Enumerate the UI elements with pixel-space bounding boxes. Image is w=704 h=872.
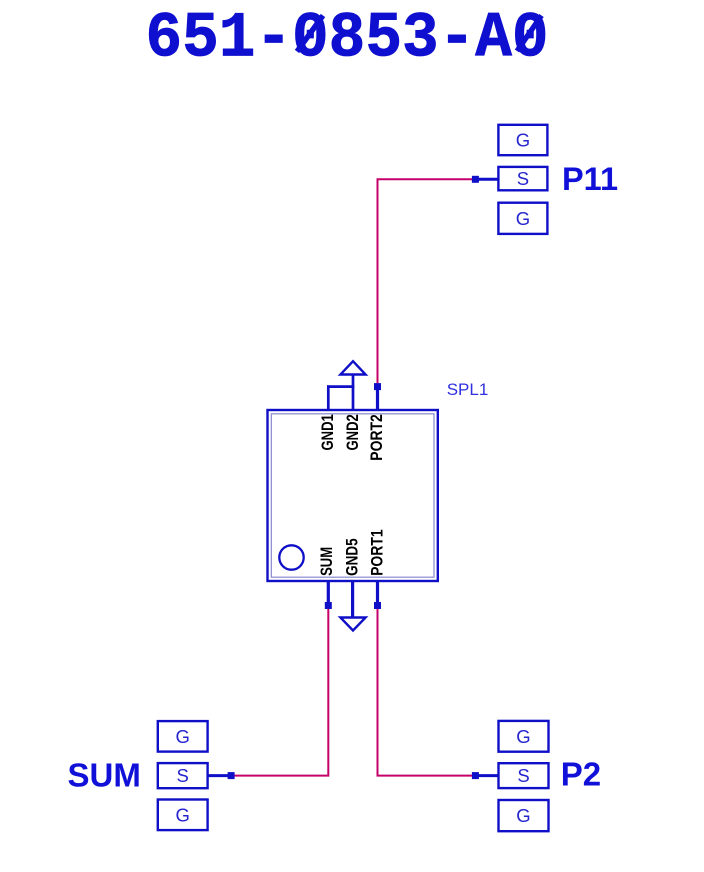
- junction square SUM: [228, 772, 235, 779]
- pin GND2 wire: [352, 374, 355, 412]
- svg-text:G: G: [516, 805, 530, 826]
- slashed-zero overlay (second 0): [517, 16, 542, 52]
- pad G (P11 top): [498, 125, 547, 155]
- pad G (P2 top): [499, 721, 549, 752]
- pad G (P11 bottom): [498, 203, 547, 234]
- svg-text:SPL1: SPL1: [447, 380, 489, 399]
- junction square PORT1: [374, 602, 381, 609]
- pad S (SUM): [158, 763, 208, 788]
- pin GND5 wire: [351, 580, 354, 618]
- svg-text:S: S: [517, 765, 529, 786]
- pin-1 indicator circle: [279, 545, 303, 569]
- svg-text:GND1: GND1: [318, 414, 337, 450]
- svg-text:P11: P11: [562, 161, 618, 197]
- svg-text:S: S: [177, 765, 189, 786]
- pin GND1 wire: [327, 385, 354, 411]
- power symbol arrow up: [340, 361, 365, 374]
- pad G (P2 bottom): [499, 800, 549, 831]
- pad G (SUM top): [158, 721, 208, 752]
- title 651-0853-A0: [146, 3, 549, 75]
- splitter U1 (SPL1) body: [268, 380, 489, 581]
- port P2 pad group (G/S/G): [472, 721, 601, 831]
- net N_P2 wire: [378, 606, 473, 776]
- wire stub S pad P2: [477, 774, 499, 777]
- svg-text:G: G: [176, 804, 190, 825]
- junction square P2: [472, 772, 479, 779]
- pin PORT1 stub: [376, 580, 379, 606]
- svg-text:SUM: SUM: [68, 756, 141, 793]
- net SUM wire: [234, 606, 328, 776]
- slashed-zero overlay (first 0): [297, 16, 323, 52]
- pin SUM stub: [327, 580, 330, 606]
- svg-text:P2: P2: [561, 756, 601, 793]
- svg-text:G: G: [516, 130, 530, 151]
- svg-text:G: G: [176, 726, 190, 747]
- svg-text:G: G: [516, 726, 530, 747]
- svg-text:PORT1: PORT1: [367, 529, 386, 576]
- port P11 pad group (G/S/G): [472, 125, 618, 234]
- svg-text:GND5: GND5: [342, 538, 361, 576]
- svg-text:SUM: SUM: [317, 547, 336, 576]
- svg-text:G: G: [516, 208, 530, 229]
- wire stub S pad P11: [477, 178, 498, 181]
- junction square PORT2: [374, 383, 381, 390]
- pad S (P2): [499, 763, 549, 788]
- pad S (P11): [498, 167, 547, 190]
- pin PORT2 stub: [376, 387, 379, 411]
- junction square SUM pin: [325, 602, 332, 609]
- pad G (SUM bottom): [158, 800, 208, 831]
- ground symbol arrow down: [340, 618, 365, 631]
- wire stub S pad SUM: [208, 774, 229, 777]
- svg-text:GND2: GND2: [343, 414, 362, 450]
- net N_P11 wire: [378, 179, 473, 385]
- svg-text:S: S: [517, 168, 529, 189]
- svg-text:PORT2: PORT2: [367, 414, 386, 461]
- svg-text:651-0853-A0: 651-0853-A0: [146, 3, 549, 75]
- junction square P11: [472, 176, 479, 183]
- port SUM pad group (G/S/G): [68, 721, 235, 830]
